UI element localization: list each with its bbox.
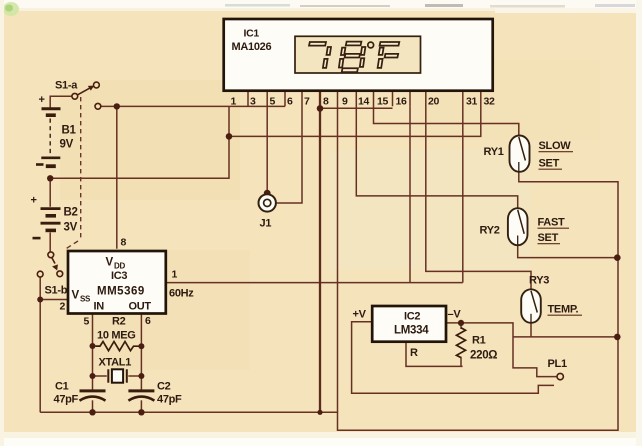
svg-text:16: 16 xyxy=(396,96,408,108)
wire S1-a lower throw to pin row underline 1-3-5 xyxy=(101,105,285,107)
node XTAL right xyxy=(138,373,144,379)
svg-text:20: 20 xyxy=(428,96,440,108)
svg-text:V: V xyxy=(106,257,114,269)
wire pin row underline under 8 9 14 15 xyxy=(320,107,393,109)
plug PL1 xyxy=(557,373,563,379)
wire pin 8 thick column xyxy=(319,92,321,413)
node C1 ground xyxy=(89,409,95,415)
svg-text:R1: R1 xyxy=(472,335,486,347)
IC1 MA1026 box xyxy=(224,19,493,91)
wire C1 bottom lead xyxy=(92,400,94,412)
IC2 LM334 box xyxy=(372,306,446,342)
svg-text:14: 14 xyxy=(358,96,370,108)
svg-text:B1: B1 xyxy=(62,125,77,137)
node R2 right xyxy=(138,343,144,349)
svg-text:3V: 3V xyxy=(64,222,78,234)
top gray smudge dashes xyxy=(225,4,290,7)
svg-text:IC2: IC2 xyxy=(404,311,420,323)
node R1 top on -V line xyxy=(458,320,464,326)
background mottling xyxy=(60,80,240,200)
wire RY2 bottom to right rail xyxy=(518,245,618,257)
IC3 MM5369 box xyxy=(68,251,166,314)
wire XTAL1 left lead xyxy=(93,375,107,377)
wire pin 31 column xyxy=(462,92,464,283)
svg-text:OUT: OUT xyxy=(129,301,152,313)
svg-text:S1-b: S1-b xyxy=(45,285,68,297)
svg-text:9: 9 xyxy=(342,96,348,108)
svg-text:+: + xyxy=(31,194,37,206)
svg-text:47pF: 47pF xyxy=(54,394,79,406)
degree symbol xyxy=(368,42,374,48)
svg-text:MM5369: MM5369 xyxy=(97,286,144,298)
wire left vertical S1-b throw to bottom rail xyxy=(39,277,41,413)
svg-text:PL1: PL1 xyxy=(548,358,567,370)
wire B2 top lead from battery junction xyxy=(49,178,51,207)
wire B2 bottom lead to S1-b pole xyxy=(49,233,51,253)
wire pin 9 column xyxy=(337,92,339,413)
digit 7 xyxy=(309,42,326,46)
resistor R2 10 MEG xyxy=(96,342,139,351)
svg-text:C2: C2 xyxy=(157,381,171,393)
wire IC2 +V line to PL1 sleeve contact xyxy=(352,322,554,394)
svg-text:5: 5 xyxy=(270,95,276,107)
svg-text:8: 8 xyxy=(121,237,127,249)
svg-text:RY1: RY1 xyxy=(484,146,504,158)
svg-text:1: 1 xyxy=(231,95,237,107)
wire pin 20 to RY3 top xyxy=(426,92,531,290)
svg-text:60Hz: 60Hz xyxy=(169,288,194,300)
node VSS left xyxy=(37,297,43,303)
wire pin 16 riser xyxy=(409,106,411,282)
node RY3 return on right rail xyxy=(614,334,621,341)
svg-text:R: R xyxy=(410,347,418,359)
wire B1 plus lead to S1-a pole xyxy=(50,96,71,107)
node pin8 ground xyxy=(317,410,322,415)
node R2 left xyxy=(90,343,96,349)
bottom white page strip xyxy=(0,432,642,446)
svg-text:J1: J1 xyxy=(260,218,272,230)
svg-text:IC3: IC3 xyxy=(111,270,127,282)
svg-text:LM334: LM334 xyxy=(394,325,429,337)
node pin1 common xyxy=(226,133,233,140)
switch S1-b xyxy=(37,252,62,277)
svg-text:RY2: RY2 xyxy=(480,225,500,237)
node pin8 xyxy=(317,105,324,112)
node C2 ground xyxy=(138,409,144,415)
svg-text:8: 8 xyxy=(323,96,329,108)
wire R1 top lead xyxy=(460,323,462,329)
battery B1 xyxy=(41,109,60,167)
wire 60Hz line from IC3 to pin31 column xyxy=(166,282,463,284)
mechanical link dashed line xyxy=(80,97,82,238)
wire IC2 R pin to R1 bottom xyxy=(406,342,463,367)
svg-text:V: V xyxy=(72,290,80,302)
wire pin 15 to RY1 top xyxy=(374,92,519,136)
svg-text:–V: –V xyxy=(448,309,462,321)
wire ground rails: bottom rail, lower rail, right rail, RY1 bottom xyxy=(40,172,618,431)
svg-text:220Ω: 220Ω xyxy=(470,350,497,362)
top white page strip xyxy=(0,0,642,8)
wire IC1 pin ticks xyxy=(248,92,410,107)
node XTAL left xyxy=(90,373,96,379)
wire IC2 -V line to PL1 tip xyxy=(446,323,557,377)
right white edge xyxy=(636,0,642,446)
node J1 top xyxy=(264,190,271,197)
svg-text:5: 5 xyxy=(84,316,90,328)
svg-text:FAST: FAST xyxy=(538,217,565,229)
digit 8 xyxy=(346,42,362,46)
wire pin 1 column down and left to battery junction xyxy=(50,106,229,178)
wire pin 7 column and J1 right lead xyxy=(276,92,302,204)
capacitor C2 xyxy=(128,389,154,392)
wire IC3 VDD pin 8 feed xyxy=(116,106,118,248)
svg-text:15: 15 xyxy=(377,96,389,108)
node RY2 return on right rail xyxy=(614,254,621,261)
svg-text:XTAL1: XTAL1 xyxy=(99,357,132,369)
svg-text:32: 32 xyxy=(484,96,496,108)
wire pin 14 to RY2 top xyxy=(356,92,517,209)
svg-text:9V: 9V xyxy=(60,139,74,151)
svg-text:+: + xyxy=(39,94,45,106)
digit F xyxy=(380,42,400,46)
IC1 pin numbers xyxy=(231,95,496,107)
wire VSS from left vertical to IC3 xyxy=(40,299,68,301)
svg-text:SET: SET xyxy=(539,158,560,170)
jack J1 xyxy=(259,194,276,211)
wire C2 bottom lead xyxy=(140,400,142,412)
svg-text:47pF: 47pF xyxy=(157,394,182,406)
svg-text:S1-a: S1-a xyxy=(55,80,78,92)
wire IC3 pin 6 OUT column xyxy=(140,314,142,390)
svg-text:+V: +V xyxy=(353,309,367,321)
node battery junction B1-B2 xyxy=(47,175,53,181)
wire IC3 pin 5 IN column xyxy=(92,314,94,390)
svg-text:C1: C1 xyxy=(55,381,69,393)
svg-text:7: 7 xyxy=(304,96,310,108)
wire XTAL1 right lead xyxy=(128,375,141,377)
svg-text:B2: B2 xyxy=(64,207,78,219)
relay RY2 xyxy=(508,208,528,245)
svg-text:RY3: RY3 xyxy=(529,275,549,287)
svg-text:MA1026: MA1026 xyxy=(232,41,272,53)
green blob top-left xyxy=(3,2,19,16)
relay RY1 xyxy=(510,136,530,172)
display window xyxy=(295,36,421,73)
svg-text:6: 6 xyxy=(287,95,293,107)
switch S1-a xyxy=(72,82,101,109)
battery B2 xyxy=(41,209,61,231)
svg-text:6: 6 xyxy=(145,315,151,327)
svg-text:2: 2 xyxy=(60,301,66,313)
node S1-a output xyxy=(114,103,120,109)
svg-text:SS: SS xyxy=(80,295,91,304)
svg-text:TEMP.: TEMP. xyxy=(548,304,579,316)
svg-text:SLOW: SLOW xyxy=(539,140,572,152)
svg-text:IN: IN xyxy=(94,301,105,313)
crystal XTAL1 xyxy=(107,369,109,382)
resistor R1 220 ohm xyxy=(457,328,466,358)
svg-text:IC1: IC1 xyxy=(244,28,260,40)
svg-text:10 MEG: 10 MEG xyxy=(97,330,136,342)
left light edge xyxy=(0,0,4,446)
wire pin 5 column to J1 xyxy=(266,92,268,194)
svg-text:SET: SET xyxy=(538,232,559,244)
relay RY3 xyxy=(521,289,541,323)
svg-text:1: 1 xyxy=(172,269,178,281)
svg-text:R2: R2 xyxy=(112,316,126,328)
wire common line pin1 to pin32 xyxy=(229,92,481,137)
capacitor C1 xyxy=(80,389,106,392)
svg-text:3: 3 xyxy=(250,95,256,107)
svg-text:31: 31 xyxy=(466,96,478,108)
wire RY3 bottom tie line xyxy=(513,323,617,337)
